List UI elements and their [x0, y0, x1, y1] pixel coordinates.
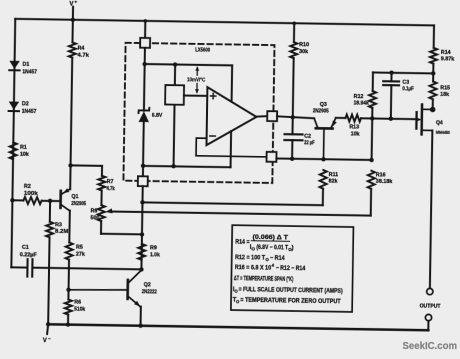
junction Q4 drain	[430, 107, 436, 113]
svg-text:18.94k: 18.94k	[354, 100, 369, 106]
svg-text:(6.8V − 0.01 T: (6.8V − 0.01 T	[256, 244, 288, 251]
svg-text:R15: R15	[440, 85, 450, 91]
svg-text:R9: R9	[150, 245, 157, 251]
svg-text:R8: R8	[91, 208, 98, 214]
junction C1-wire/R9-bottom/Q2-collector	[139, 267, 143, 271]
svg-text:C1: C1	[22, 245, 29, 251]
terminal pin square bottom-left of LX5600	[138, 176, 148, 186]
terminal pin square op-amp output	[267, 111, 277, 121]
wire R12/C3/R14 node row	[373, 71, 433, 74]
svg-text:ΔT = TEMPERATURE SPAN (°K): ΔT = TEMPERATURE SPAN (°K)	[234, 276, 294, 283]
resistor R10	[289, 23, 309, 117]
junction left-rail/R2	[10, 198, 14, 202]
wire op-amp output	[256, 115, 267, 118]
svg-text:R12 = 100 T: R12 = 100 T	[235, 254, 265, 261]
svg-text:4.7k: 4.7k	[107, 186, 115, 192]
svg-text:C2: C2	[304, 134, 311, 140]
wire R2 to Q1 base	[42, 200, 60, 202]
resistor R6	[65, 299, 86, 314]
resistor R4	[67, 20, 90, 166]
wire line A to R11 bottom	[142, 186, 323, 205]
svg-text:+: +	[74, 0, 77, 5]
svg-text:R2: R2	[24, 184, 31, 190]
junction zener/sensor wire	[142, 62, 146, 66]
node V+ supply label	[69, 0, 77, 8]
svg-text:4.7k: 4.7k	[77, 53, 89, 59]
junction C2/lower wire	[290, 157, 294, 161]
svg-text:8.2M: 8.2M	[55, 229, 69, 235]
design-formula note box	[231, 225, 354, 312]
label LX5600	[195, 47, 210, 53]
resistor R15	[429, 81, 450, 109]
transistor Q3	[312, 102, 337, 160]
wire bottom V- rail	[48, 324, 428, 330]
svg-text:30k: 30k	[299, 49, 308, 55]
zener diode 6.8V	[138, 108, 163, 166]
svg-text:10k: 10k	[20, 152, 29, 158]
resistor R7	[98, 176, 115, 193]
wire R7 to R8	[100, 190, 102, 205]
temperature sensor block	[164, 64, 184, 166]
transistor Q4 MOSFET	[416, 104, 451, 135]
wire top V+ rail	[15, 19, 434, 26]
wire Q1 emitter to R4 column	[69, 165, 71, 189]
svg-text:0.1µF: 0.1µF	[402, 86, 414, 92]
junction R11-top/Q3-base	[321, 157, 325, 161]
svg-text:R7: R7	[107, 179, 114, 185]
svg-text:6.8V: 6.8V	[152, 113, 163, 119]
label 10mV/degC with arrow	[187, 66, 206, 94]
junction V-/R3	[46, 322, 50, 326]
svg-text:R13: R13	[349, 124, 359, 130]
junction R14/R15 node	[431, 71, 435, 75]
svg-text:Q3: Q3	[320, 102, 327, 108]
junction C3-top	[389, 70, 393, 74]
svg-text:9.87k: 9.87k	[441, 56, 455, 62]
svg-text:500: 500	[90, 215, 99, 221]
diode D1	[9, 61, 37, 76]
wire Q2 emitter to V- rail	[140, 307, 142, 326]
wire R8 wiper line B to R16 bottom	[110, 185, 371, 216]
resistor R13	[345, 115, 361, 138]
junction V+/zener column	[144, 19, 148, 23]
svg-text:10mV/°C: 10mV/°C	[187, 77, 205, 83]
resistor R5	[66, 242, 86, 260]
wire left rail	[11, 19, 15, 267]
junction R16-top	[369, 158, 373, 162]
junction zener/minus-ref wire	[141, 164, 145, 168]
wire op-amp feedback loop (minus input)	[196, 138, 267, 157]
svg-text:− R14: − R14	[270, 255, 285, 262]
IC boundary LX5600 dashed box	[123, 43, 274, 183]
wire sensor to op-amp + input	[184, 95, 207, 97]
terminal output circle lower	[425, 314, 431, 320]
svg-text:1N457: 1N457	[22, 109, 37, 115]
svg-text:D2: D2	[22, 101, 29, 107]
svg-text:22 pF: 22 pF	[304, 140, 315, 146]
svg-text:R16 = 6.8 X 10: R16 = 6.8 X 10	[235, 264, 272, 272]
resistor R14	[430, 25, 455, 81]
svg-text:R4: R4	[78, 46, 85, 52]
svg-text:R12: R12	[354, 94, 364, 100]
svg-text:82k: 82k	[329, 179, 338, 185]
capacitor C1	[11, 245, 142, 279]
svg-text:1N457: 1N457	[22, 69, 37, 75]
resistor R9	[138, 244, 160, 260]
svg-text:− R12 − R14: − R12 − R14	[276, 265, 306, 272]
resistor R2	[12, 184, 42, 204]
svg-text:27k: 27k	[76, 252, 85, 258]
svg-text:R1: R1	[20, 145, 27, 151]
wire emitter node to R7	[70, 165, 102, 175]
svg-text:0.22µF: 0.22µF	[20, 252, 38, 258]
svg-text:R14 =: R14 =	[235, 239, 250, 246]
junction R2/R3/Q1-base	[48, 199, 52, 203]
node V- supply label	[43, 324, 52, 344]
wire terminal to zener	[143, 48, 146, 111]
transistor Q1	[60, 188, 86, 211]
potentiometer R8	[90, 205, 104, 221]
junction R12/R13/gate	[370, 116, 374, 120]
svg-text:): )	[291, 244, 293, 251]
wire zener column top	[144, 21, 146, 38]
terminal output circle upper	[427, 288, 433, 294]
capacitor C2	[284, 117, 316, 159]
junction R5/R6/Q2-base	[66, 288, 70, 292]
wire lower terminal row	[276, 159, 371, 160]
svg-text:100k: 100k	[24, 191, 38, 197]
junction LX-pin/line-A	[140, 200, 144, 204]
wire R12 column to lower row	[371, 118, 374, 160]
label OUTPUT	[420, 303, 442, 309]
svg-text:510k: 510k	[74, 307, 85, 313]
junction V-/Q2-emitter	[138, 323, 142, 327]
svg-text:R6: R6	[74, 300, 81, 306]
svg-text:18k: 18k	[440, 92, 449, 98]
svg-text:C3: C3	[402, 79, 409, 85]
resistor R1	[10, 142, 29, 159]
junction C3-bottom/gate wire	[389, 116, 393, 120]
wire V+ stub	[72, 7, 74, 20]
resistor R11	[320, 170, 339, 189]
svg-text:1.0k: 1.0k	[150, 252, 160, 258]
resistor R16	[368, 171, 393, 189]
svg-text:2N2905: 2N2905	[313, 108, 329, 114]
wire R13 to Q4 gate	[361, 117, 416, 120]
svg-text:R3: R3	[55, 222, 62, 228]
wire LX bottom pin down	[141, 186, 142, 269]
svg-text:R14: R14	[441, 50, 451, 56]
svg-text:MM4450: MM4450	[436, 130, 450, 135]
junction V+/R4	[71, 18, 75, 22]
svg-text:V: V	[43, 338, 47, 344]
wire R5 to R6	[67, 260, 70, 300]
junction sensor-top/zener wire	[173, 62, 177, 66]
wire zener node to LX bottom pin	[142, 166, 144, 177]
wire op-amp out to Q3	[277, 116, 314, 118]
svg-text:−: −	[48, 336, 51, 341]
svg-text:R16: R16	[376, 172, 386, 178]
wire Q3 emitter to R13	[336, 117, 346, 119]
junction sensor-bottom/ref wire	[171, 164, 175, 168]
svg-text:Q1: Q1	[71, 194, 78, 200]
svg-text:Q4: Q4	[436, 120, 443, 126]
terminal pin square top of LX5600	[140, 38, 150, 48]
svg-text:R11: R11	[329, 172, 339, 178]
junction R10-bottom	[291, 115, 295, 119]
svg-text:SeekIC.com: SeekIC.com	[403, 341, 458, 352]
terminal pin square lower LX5600	[267, 152, 277, 162]
svg-text:2N2222: 2N2222	[142, 289, 157, 295]
wire R8 bottom	[101, 221, 142, 234]
svg-text:Q2: Q2	[144, 282, 151, 288]
svg-text:LX5600: LX5600	[195, 47, 210, 53]
wire zener ref to op-amp lower rail	[143, 130, 231, 167]
svg-text:10k: 10k	[351, 131, 360, 137]
junction R8-bottom/R9-top	[140, 232, 144, 236]
wiper arrow of R8	[105, 208, 112, 213]
op-amp U1 triangle	[206, 87, 256, 146]
junction V-/R6	[66, 322, 70, 326]
wire zener to op-amp upper rail	[144, 64, 232, 102]
svg-text:D1: D1	[22, 62, 29, 68]
svg-text:38.18k: 38.18k	[376, 179, 393, 185]
diode D2	[9, 101, 37, 115]
svg-text:(0.066) Δ T: (0.066) Δ T	[253, 234, 289, 242]
svg-text:R10: R10	[299, 42, 309, 48]
svg-text:OUTPUT: OUTPUT	[420, 303, 442, 309]
wire R6 to V- rail	[67, 315, 69, 325]
wire V- rail to lower output terminal	[427, 321, 429, 330]
junction V+/R10	[292, 21, 296, 25]
resistor R3	[45, 201, 70, 325]
svg-text:2N2905: 2N2905	[71, 201, 86, 207]
junction Q1-emitter/R7 wire	[68, 163, 72, 167]
wire Q1 collector to R5	[68, 210, 71, 242]
wire Q4 source to output	[430, 130, 432, 288]
transistor Q2	[68, 269, 157, 307]
capacitor C3	[383, 73, 415, 119]
resistor R12	[353, 72, 376, 118]
svg-text:R5: R5	[76, 245, 83, 251]
